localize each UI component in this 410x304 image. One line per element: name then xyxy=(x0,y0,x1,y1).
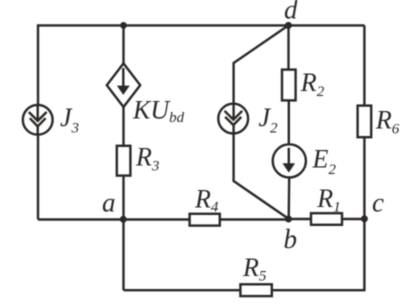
resistor R2 body xyxy=(282,70,296,101)
node b junction dot xyxy=(285,216,292,223)
wire KU branch: diamond to R3 xyxy=(122,106,124,146)
current source J3 circle xyxy=(23,105,53,135)
dependent source KU_bd arrow shaft xyxy=(122,68,124,93)
wire row a: a to R4 xyxy=(38,218,190,220)
current source J3 chevron 1 xyxy=(29,112,47,121)
svg-text:R2: R2 xyxy=(300,68,325,100)
svg-text:R6: R6 xyxy=(375,106,400,138)
current source J2 chevron 1 xyxy=(225,111,243,120)
wire KU branch: R3 to node a xyxy=(122,175,124,220)
wire right rail upper (top to R6) xyxy=(363,25,365,106)
svg-text:KUbd: KUbd xyxy=(132,95,185,126)
svg-text:J3: J3 xyxy=(60,103,79,137)
svg-text:d: d xyxy=(284,0,298,24)
resistor R4 body xyxy=(190,214,220,226)
current source J2 chevron 2 xyxy=(225,117,241,125)
wire b to R1 xyxy=(289,218,312,220)
junction dot KU branch / top rail xyxy=(120,22,127,29)
wire d branch down to R2 xyxy=(287,25,289,70)
node d junction dot xyxy=(285,22,292,29)
dependent source KU_bd arrowhead xyxy=(118,86,129,94)
wire R1 to c xyxy=(342,218,365,220)
wire node a drop to bottom rail xyxy=(122,220,124,291)
wire KU branch: top rail to diamond xyxy=(122,25,124,64)
EMF source E2 circle xyxy=(273,144,306,177)
dependent source KU_bd diamond xyxy=(107,63,140,107)
svg-text:J2: J2 xyxy=(259,103,279,137)
current source J3 chevron 2 xyxy=(30,118,46,126)
current source J2 shaft xyxy=(232,104,234,120)
wire E2 to b xyxy=(288,177,291,220)
resistor R5 body xyxy=(240,284,271,296)
EMF source E2 arrow shaft xyxy=(288,148,290,171)
wire left side and top rail xyxy=(38,25,365,219)
wire diagonal d to J2 corner, through J2, diagonal to b xyxy=(234,25,289,218)
wire row a: R4 to b xyxy=(220,218,289,220)
resistor R6 body xyxy=(358,106,372,138)
current source J2 circle xyxy=(218,104,248,134)
svg-text:b: b xyxy=(284,224,298,254)
node c junction dot xyxy=(361,215,368,222)
svg-text:c: c xyxy=(372,188,384,218)
wire right rail lower (R6 to bottom corner) xyxy=(124,137,365,290)
svg-text:a: a xyxy=(102,188,116,218)
svg-text:R1: R1 xyxy=(316,184,340,215)
wire R2 to E2 xyxy=(288,100,290,146)
svg-text:E2: E2 xyxy=(312,145,337,178)
EMF source E2 arrowhead xyxy=(284,164,294,172)
current source J3 shaft xyxy=(37,105,39,121)
svg-text:R4: R4 xyxy=(194,184,219,215)
svg-text:R5: R5 xyxy=(242,253,267,285)
resistor R1 body xyxy=(311,213,342,225)
svg-text:R3: R3 xyxy=(135,142,159,174)
node a junction dot xyxy=(120,216,127,223)
resistor R3 body xyxy=(117,146,131,176)
